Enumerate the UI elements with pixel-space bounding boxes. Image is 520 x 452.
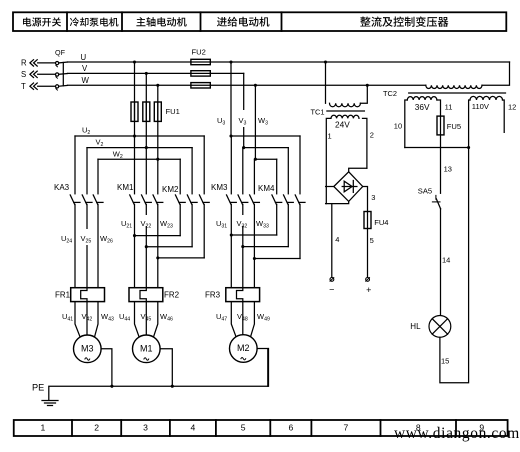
fuse FU5 — [437, 116, 444, 135]
QF linkage bar — [62, 63, 64, 86]
junction U2 — [133, 134, 136, 137]
svg-text:14: 14 — [442, 256, 450, 265]
rectifier bridge — [334, 172, 363, 202]
wire PE bus — [49, 349, 269, 401]
contact KM4 pole 3 — [295, 136, 305, 259]
wire U3 bus to KM4 — [231, 135, 300, 137]
wire common link 36V-110V — [405, 147, 469, 149]
wire bridge right lead, node 3 — [363, 187, 368, 212]
svg-text:FR1: FR1 — [55, 291, 71, 300]
junction V3 — [242, 146, 245, 149]
svg-text:www.diangon.com: www.diangon.com — [394, 425, 520, 442]
svg-text:1: 1 — [328, 132, 332, 141]
svg-text:FU5: FU5 — [447, 122, 461, 131]
fuse FU2 pole W — [191, 83, 210, 88]
svg-text:12: 12 — [508, 102, 516, 111]
motor M1 spindle — [133, 335, 161, 363]
junction V2 — [145, 146, 148, 149]
thermal relay FR1 — [71, 288, 105, 302]
svg-text:10: 10 — [394, 122, 402, 131]
wire V3 bus to KM4 — [244, 147, 289, 149]
contact KA3 pole 3 — [93, 159, 103, 288]
svg-text:TC2: TC2 — [383, 89, 397, 98]
svg-text:FU4: FU4 — [374, 218, 388, 227]
thermal relay FR2 — [129, 288, 163, 302]
wire U3 drop — [230, 62, 232, 136]
header table frame — [13, 12, 506, 31]
svg-text:R: R — [21, 59, 27, 68]
motor M2 feed leads — [231, 302, 236, 337]
contact KM1 pole 3 — [153, 159, 163, 288]
svg-text:FR3: FR3 — [205, 291, 221, 300]
junction node common — [467, 146, 470, 149]
svg-text:11: 11 — [445, 102, 453, 111]
svg-text:FU2: FU2 — [192, 48, 206, 57]
svg-text:13: 13 — [444, 164, 452, 173]
wire bus W2 — [98, 158, 180, 160]
header label 进给电动机 — [217, 17, 270, 27]
bottom zone table — [14, 420, 508, 436]
svg-text:1: 1 — [40, 423, 45, 433]
input arrow R — [30, 60, 37, 66]
wire M3 cooling pump to PE — [101, 349, 112, 386]
wire R to QF — [38, 62, 56, 64]
wire V phase bus — [68, 72, 244, 74]
svg-text:5: 5 — [370, 236, 374, 245]
svg-text:KM4: KM4 — [258, 184, 275, 193]
header label 电源开关 — [23, 17, 61, 26]
junction W2 — [156, 158, 159, 161]
svg-text:24V: 24V — [335, 120, 350, 130]
svg-text:U: U — [81, 53, 87, 62]
svg-text:M2: M2 — [237, 343, 250, 353]
contact KM2 pole 1 — [175, 159, 185, 235]
svg-text:FR2: FR2 — [164, 291, 180, 300]
wire V3 drop — [243, 73, 245, 147]
wire U drop to FU1 — [134, 62, 136, 136]
contact KA3 pole 1 — [70, 136, 80, 288]
svg-text:KM3: KM3 — [211, 183, 228, 192]
wire 13 — [440, 135, 442, 193]
contact KM3 pole 1 — [227, 136, 237, 287]
transformer TC2 primary — [426, 85, 482, 88]
wire M2 feed to PE — [257, 349, 268, 387]
fuse FU2 pole V — [191, 71, 210, 76]
svg-text:4: 4 — [335, 235, 339, 244]
input arrow S — [30, 71, 37, 77]
transformer TC2 secondary 36V — [407, 97, 437, 100]
QF pole at 62.0 — [56, 62, 59, 65]
contact KM3 pole 2 — [238, 148, 248, 287]
header label 主轴电动机 — [136, 17, 186, 27]
wire bus U2 — [75, 135, 204, 137]
fuse FU1 pole 3 — [154, 102, 161, 121]
junction W3 tap — [254, 84, 257, 87]
svg-text:PE: PE — [32, 383, 44, 393]
contact KM4 pole 1 — [272, 159, 282, 235]
svg-text:V: V — [82, 64, 88, 73]
junction W3 — [254, 158, 257, 161]
wire W drop to FU1 — [157, 85, 159, 159]
contact KM1 pole 1 — [130, 136, 140, 288]
svg-text:W: W — [82, 76, 90, 85]
svg-text:2: 2 — [94, 423, 99, 433]
svg-text:M3: M3 — [81, 343, 94, 353]
motor M3 cooling pump leads — [75, 302, 80, 337]
wire W phase bus — [68, 84, 426, 86]
svg-text:T: T — [21, 82, 26, 91]
input arrow T — [30, 83, 37, 89]
ground symbol — [42, 401, 58, 406]
contact KM3 pole 3 — [250, 159, 260, 287]
wire 14 — [440, 209, 442, 316]
wire S to QF — [38, 73, 56, 75]
svg-text:QF: QF — [55, 48, 66, 57]
wire W3 drop — [254, 85, 256, 159]
contact KM2 pole 2 — [187, 148, 197, 247]
motor M3 cooling pump — [74, 335, 102, 363]
junction V tap FU1 — [145, 72, 148, 75]
header label 整流及控制变压器 — [360, 16, 448, 27]
svg-text:3: 3 — [143, 423, 148, 433]
junction U tap FU1 — [133, 60, 136, 63]
svg-text:4: 4 — [191, 423, 196, 433]
transformer TC2 secondary 110V — [470, 96, 503, 100]
fuse FU4 — [364, 212, 371, 229]
wire W3 bus to KM4 — [255, 158, 276, 160]
transformer TC1 secondary 24V — [331, 115, 359, 118]
wire KM4 outputs merge to KM3 — [231, 234, 276, 236]
header label 冷却泵电机 — [70, 17, 119, 26]
svg-text:−: − — [329, 285, 334, 295]
svg-text:3: 3 — [371, 193, 375, 202]
svg-text:KA3: KA3 — [54, 183, 70, 192]
svg-text:S: S — [21, 70, 26, 79]
TC1 core — [327, 110, 365, 112]
wire T to QF — [38, 85, 56, 87]
svg-text:36V: 36V — [415, 102, 430, 112]
wire bridge left lead — [326, 186, 334, 188]
terminal plus — [366, 278, 370, 282]
wire 15 return — [440, 148, 469, 383]
wire KM2 outputs merge to KM1 — [135, 235, 181, 237]
terminal minus — [330, 278, 334, 282]
junction M3 PE — [110, 385, 113, 388]
svg-text:TC1: TC1 — [311, 107, 325, 116]
wire M1 spindle to PE — [160, 349, 172, 386]
svg-text:110V: 110V — [472, 102, 490, 111]
svg-text:HL: HL — [410, 322, 421, 331]
contact KM4 pole 2 — [284, 148, 294, 247]
thermal relay FR3 — [226, 288, 260, 302]
motor M2 feed — [230, 335, 258, 363]
QF pole at 85.3 — [56, 85, 59, 88]
fuse FU2 pole U — [191, 59, 210, 64]
wire bridge bottom lead, node 4 — [326, 202, 349, 204]
svg-text:+: + — [366, 285, 371, 295]
svg-text:15: 15 — [441, 357, 449, 366]
svg-text:6: 6 — [288, 423, 293, 433]
fuse FU1 pole 2 — [143, 102, 150, 121]
fuse FU1 pole 1 — [131, 102, 138, 121]
wire bridge top lead — [349, 168, 367, 171]
transformer TC1 primary — [324, 60, 327, 63]
QF pole at 73.4 — [56, 73, 59, 76]
junction U3 — [229, 134, 232, 137]
wire V drop to FU1 — [145, 73, 147, 147]
wire bus V2 — [87, 147, 192, 149]
contact KA3 pole 2 — [82, 148, 92, 288]
svg-text:FU1: FU1 — [166, 107, 180, 116]
wire U phase bus — [68, 61, 510, 63]
svg-text:KM1: KM1 — [117, 183, 134, 192]
junction W tap FU1 — [156, 84, 159, 87]
svg-text:7: 7 — [344, 423, 349, 433]
svg-text:SA5: SA5 — [418, 187, 432, 196]
svg-text:5: 5 — [241, 423, 246, 433]
junction U3 tap — [229, 60, 232, 63]
TC2 core — [409, 92, 506, 94]
contact KM1 pole 2 — [142, 148, 152, 288]
junction M1 PE — [171, 385, 174, 388]
svg-text:KM2: KM2 — [162, 185, 179, 194]
svg-text:M1: M1 — [140, 343, 153, 353]
motor M1 spindle leads — [135, 302, 140, 337]
svg-text:2: 2 — [370, 130, 374, 139]
contact KM2 pole 3 — [199, 136, 209, 258]
wire node 5 — [367, 229, 369, 278]
